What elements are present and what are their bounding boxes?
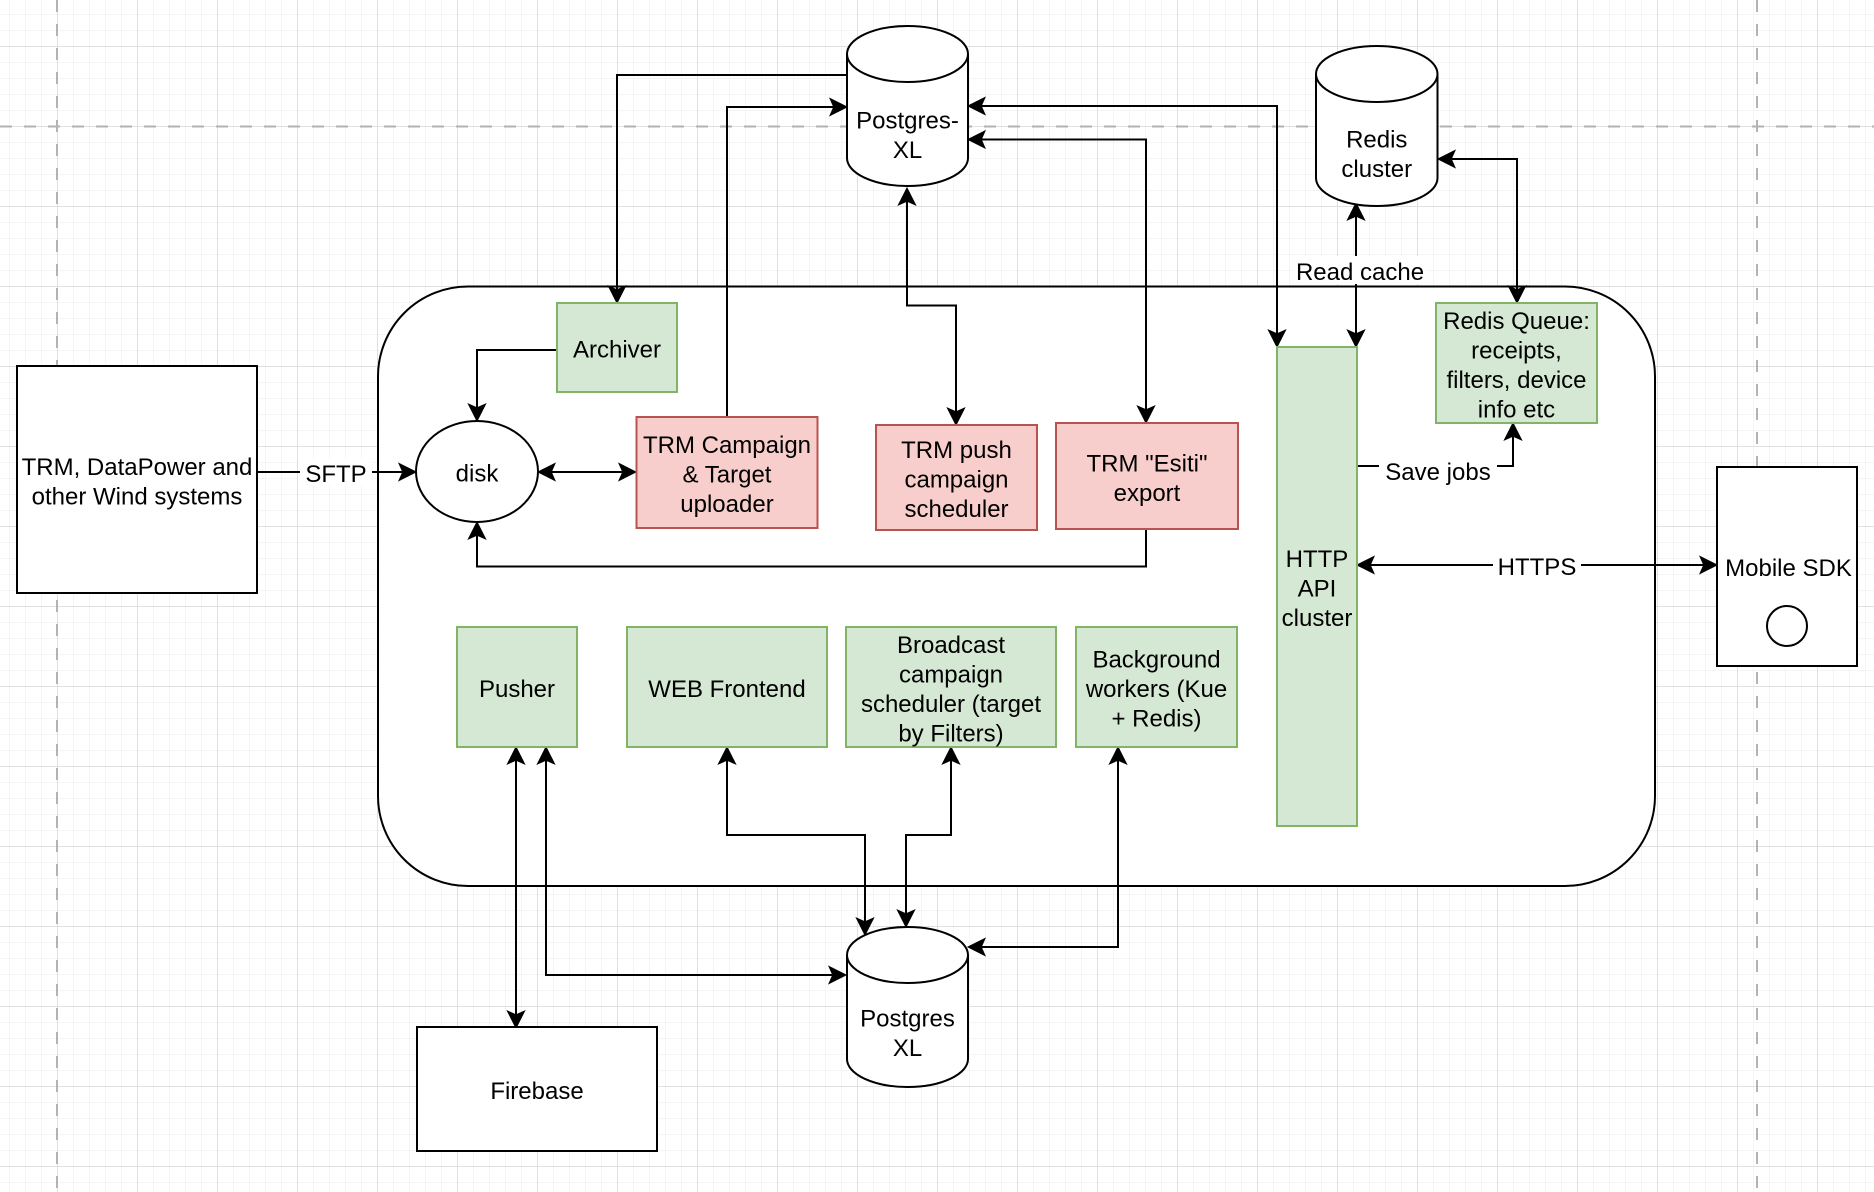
container: backend system boundary (rounded rectangle) [378, 287, 1655, 887]
node: Mobile SDK [1717, 467, 1857, 666]
edge label: Save jobs [1379, 456, 1497, 486]
edge: Redis cluster <-> Redis Queue [1438, 150, 1526, 303]
node: TRM Esiti export [1056, 423, 1238, 529]
svg-text:Mobile SDK: Mobile SDK [1725, 555, 1852, 582]
node: Pusher [457, 627, 577, 747]
svg-text:Archiver: Archiver [573, 337, 661, 364]
edge: HTTP API cluster -> Redis Queue (Save jobs) [1357, 423, 1522, 466]
edge label: Read cache [1293, 256, 1427, 286]
database cylinder: Redis cluster [1316, 46, 1438, 206]
node: TRM Campaign & Target uploader [637, 417, 818, 528]
node: disk [416, 421, 538, 522]
edge: Archiver -> disk [468, 350, 557, 421]
edge label: HTTPS [1493, 551, 1581, 581]
edge: Redis cluster <-> HTTP API cluster (Read cache) [1347, 203, 1364, 347]
node: TRM push campaign scheduler [876, 425, 1037, 530]
svg-text:TRM pushcampaignscheduler: TRM pushcampaignscheduler [901, 437, 1012, 523]
svg-text:disk: disk [456, 461, 500, 488]
edge: Pusher <-> Firebase [507, 747, 524, 1028]
edge: Pusher <-> Postgres XL (bottom) [537, 747, 846, 984]
svg-text:Read cache: Read cache [1296, 259, 1424, 286]
node: Broadcast campaign scheduler (target by Filters) [846, 627, 1056, 747]
edge: Background workers <-> Postgres XL (bottom) [968, 747, 1127, 956]
edge: Postgres-XL <-> TRM Esiti export [968, 131, 1155, 423]
edge: TRM Campaign uploader -> Postgres-XL [727, 98, 847, 417]
svg-text:Firebase: Firebase [490, 1078, 583, 1105]
node: HTTP API cluster [1277, 347, 1357, 826]
edge: disk <-> TRM Campaign uploader [538, 463, 636, 480]
svg-text:Pusher: Pusher [479, 676, 555, 703]
edge: Postgres-XL <-> HTTP API cluster [968, 97, 1286, 347]
edge: TRM Esiti export -> disk [468, 522, 1146, 567]
edge: HTTP API cluster <-> Mobile SDK (HTTPS) [1357, 556, 1717, 573]
node: Background workers (Kue + Redis) [1076, 627, 1237, 747]
edge: Postgres-XL <-> TRM push campaign scheduler [898, 188, 964, 425]
database cylinder: Postgres-XL (top) [847, 26, 968, 186]
node: Archiver [557, 303, 677, 392]
edge: TRM systems -> disk (SFTP) [257, 463, 416, 480]
node: Firebase [417, 1027, 657, 1151]
svg-text:SFTP: SFTP [305, 461, 366, 488]
node: TRM, DataPower and other Wind systems [17, 366, 257, 593]
node: WEB Frontend [627, 627, 827, 747]
edge: Broadcast scheduler <-> Postgres XL (bottom) [897, 747, 959, 927]
circle decoration inside Mobile SDK [1767, 606, 1807, 646]
svg-text:HTTPS: HTTPS [1498, 554, 1577, 581]
svg-text:WEB Frontend: WEB Frontend [648, 676, 805, 703]
edge: WEB Frontend <-> Postgres XL (bottom) [718, 747, 873, 935]
edge: Postgres-XL -> Archiver [608, 75, 847, 303]
svg-text:Save jobs: Save jobs [1385, 459, 1490, 486]
database cylinder: Postgres XL (bottom) [847, 927, 968, 1087]
node: Redis Queue: receipts, filters, device info etc [1436, 303, 1597, 423]
edge label: SFTP [300, 458, 372, 488]
